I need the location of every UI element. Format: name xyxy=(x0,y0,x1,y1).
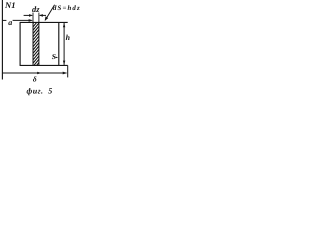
extension drop at right end of bottom edge xyxy=(67,65,69,77)
small arrow tick right of S xyxy=(56,57,59,59)
svg-text:N1: N1 xyxy=(4,0,16,10)
mid arrowhead on baseline xyxy=(37,72,41,75)
svg-text:a: a xyxy=(8,18,12,27)
leader arrowhead xyxy=(45,16,49,21)
h dimension line xyxy=(63,23,65,65)
dz extension line left xyxy=(32,13,34,23)
svg-text:h: h xyxy=(66,33,70,42)
arrowhead of a at strip left extension xyxy=(29,19,33,22)
end arrowhead on baseline xyxy=(63,72,67,75)
rectangle left edge xyxy=(19,22,21,65)
bottom dimension baseline xyxy=(2,72,66,74)
leader line to dS=hdz xyxy=(45,5,54,20)
rectangle right edge xyxy=(58,22,60,65)
dz dimension right shaft with left-pointing arrow xyxy=(40,14,46,16)
rectangle bottom edge extended right xyxy=(20,64,68,66)
svg-text:фиг.: фиг. xyxy=(27,87,44,96)
svg-text:5: 5 xyxy=(48,87,52,96)
svg-text:δ: δ xyxy=(33,75,37,84)
svg-text:dS=hdz: dS=hdz xyxy=(53,5,81,12)
hatched strip right edge xyxy=(38,22,40,65)
svg-text:S: S xyxy=(52,52,56,61)
axis N1 vertical line xyxy=(1,0,3,80)
dz dimension left shaft with right-pointing arrow xyxy=(24,14,32,16)
dz extension line right xyxy=(38,13,40,23)
dimension line a (shaft right of label) xyxy=(13,19,32,21)
background xyxy=(0,0,82,100)
svg-text:dz: dz xyxy=(32,5,40,14)
strip hatching xyxy=(33,16,40,74)
h top arrowhead xyxy=(63,23,65,27)
rectangle top edge extended right xyxy=(20,21,68,23)
h bottom arrowhead xyxy=(63,61,65,65)
hatched strip left edge xyxy=(32,22,34,65)
dimension line a (shaft left of label) xyxy=(2,19,6,21)
